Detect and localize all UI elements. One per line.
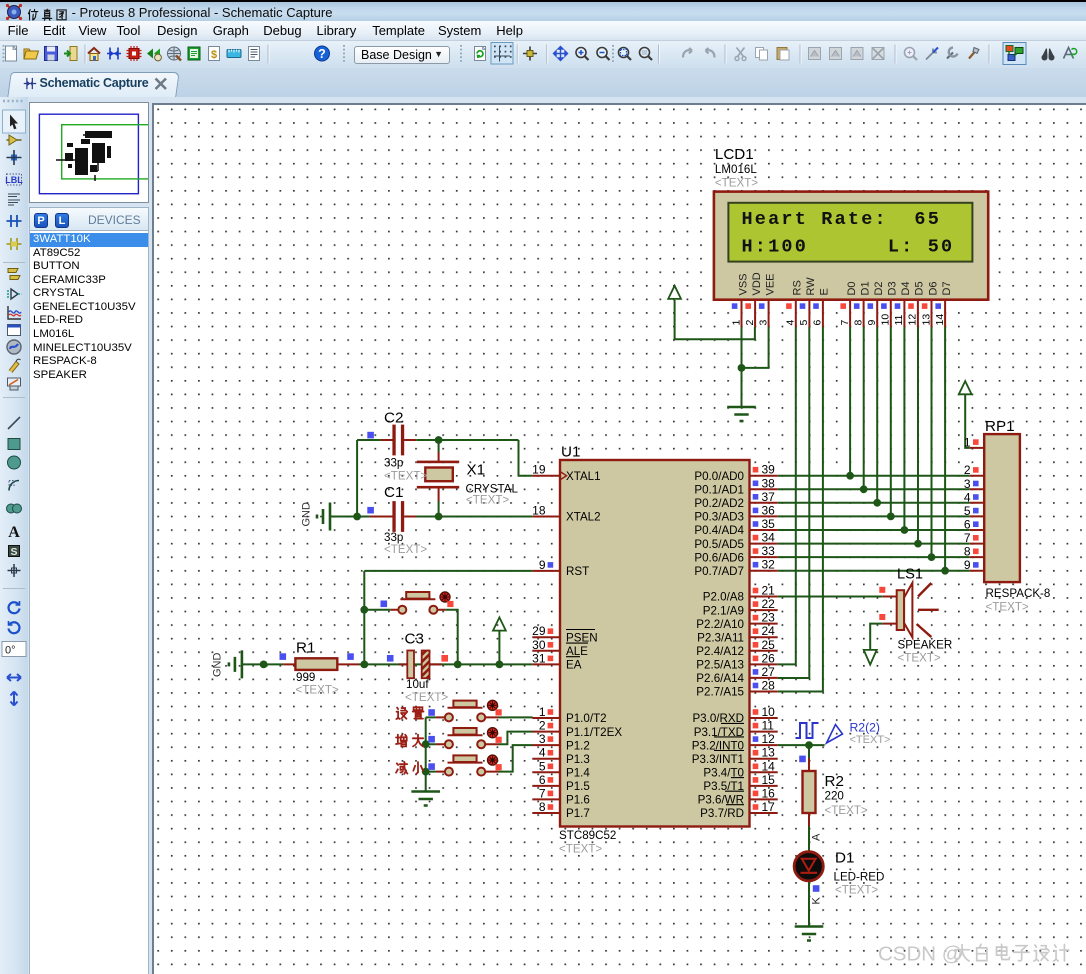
svg-text:33: 33 xyxy=(762,544,776,558)
svg-text:ALE: ALE xyxy=(566,645,588,658)
svg-text:P1.7: P1.7 xyxy=(566,807,590,820)
svg-text:?: ? xyxy=(318,47,326,61)
svg-text:22: 22 xyxy=(762,597,776,611)
svg-text:26: 26 xyxy=(762,651,776,665)
svg-text:R1: R1 xyxy=(296,640,315,657)
svg-text:P1.5: P1.5 xyxy=(566,780,590,793)
svg-text:P0.7/AD7: P0.7/AD7 xyxy=(694,565,744,578)
svg-text:P3.7/RD: P3.7/RD xyxy=(700,807,744,820)
svg-text:25: 25 xyxy=(762,638,776,652)
svg-text:D4: D4 xyxy=(900,281,912,295)
svg-text:RST: RST xyxy=(566,565,589,578)
svg-text:8: 8 xyxy=(539,800,546,814)
svg-text:6: 6 xyxy=(964,517,971,531)
svg-text:LBL: LBL xyxy=(5,175,23,185)
svg-text:C1: C1 xyxy=(384,484,403,501)
svg-text:32: 32 xyxy=(762,558,776,572)
svg-text:<TEXT>: <TEXT> xyxy=(405,691,448,704)
svg-text:5: 5 xyxy=(798,320,810,326)
svg-text:P1.1/T2EX: P1.1/T2EX xyxy=(566,726,622,739)
svg-text:999: 999 xyxy=(296,671,315,684)
svg-text:1: 1 xyxy=(964,435,971,449)
svg-text:P2.0/A8: P2.0/A8 xyxy=(703,591,744,604)
svg-text:8: 8 xyxy=(852,320,864,326)
svg-text:10: 10 xyxy=(880,314,892,326)
svg-text:19: 19 xyxy=(532,463,546,477)
svg-text:<TEXT>: <TEXT> xyxy=(850,734,891,746)
svg-text:10uf: 10uf xyxy=(406,678,429,691)
svg-text:H:100 L: 50: H:100 L: 50 xyxy=(742,237,955,258)
svg-text:C3: C3 xyxy=(405,631,424,648)
svg-text:$: $ xyxy=(211,49,217,61)
svg-text:P2.4/A12: P2.4/A12 xyxy=(696,645,744,658)
svg-text:6: 6 xyxy=(812,320,824,326)
svg-text:P2.5/A13: P2.5/A13 xyxy=(696,659,744,672)
svg-text:LM016L: LM016L xyxy=(715,163,757,176)
svg-text:14: 14 xyxy=(934,314,946,326)
svg-text:9: 9 xyxy=(866,320,878,326)
svg-text:RS: RS xyxy=(792,280,804,295)
svg-text:D3: D3 xyxy=(887,281,899,295)
svg-text:STC89C52: STC89C52 xyxy=(559,829,616,842)
svg-text:P0.2/AD2: P0.2/AD2 xyxy=(694,497,744,510)
svg-text:4: 4 xyxy=(964,490,971,504)
svg-text:RW: RW xyxy=(805,277,817,296)
svg-text:10: 10 xyxy=(762,705,776,719)
svg-text:P2.1/A9: P2.1/A9 xyxy=(703,604,744,617)
svg-text:2: 2 xyxy=(744,320,756,326)
svg-text:<TEXT>: <TEXT> xyxy=(384,470,427,483)
svg-text:D1: D1 xyxy=(835,850,854,867)
svg-text:U1: U1 xyxy=(561,444,580,461)
svg-text:LCD1: LCD1 xyxy=(715,146,754,163)
svg-text:P0.6/AD6: P0.6/AD6 xyxy=(694,551,744,564)
svg-text:5: 5 xyxy=(964,504,971,518)
svg-text:P2.3/A11: P2.3/A11 xyxy=(697,631,744,644)
svg-text:A: A xyxy=(8,524,20,541)
svg-text:<TEXT>: <TEXT> xyxy=(384,543,427,556)
svg-text:P0.5/AD5: P0.5/AD5 xyxy=(694,538,744,551)
svg-text:K: K xyxy=(811,897,823,905)
svg-text:P2.7/A15: P2.7/A15 xyxy=(696,686,744,699)
svg-text:GND: GND xyxy=(212,653,224,678)
svg-text:38: 38 xyxy=(762,476,776,490)
svg-text:Heart Rate: 65: Heart Rate: 65 xyxy=(742,209,942,230)
svg-text:D1: D1 xyxy=(859,281,871,295)
svg-text:P0.1/AD1: P0.1/AD1 xyxy=(694,483,744,496)
svg-text:R2: R2 xyxy=(825,773,844,790)
svg-text:5: 5 xyxy=(539,759,546,773)
svg-text:P0.3/AD3: P0.3/AD3 xyxy=(694,511,744,524)
svg-text:P0.0/AD0: P0.0/AD0 xyxy=(694,470,744,483)
svg-text:<TEXT>: <TEXT> xyxy=(559,843,602,856)
svg-text:11: 11 xyxy=(893,314,905,325)
svg-text:D6: D6 xyxy=(927,281,939,295)
svg-text:P2.2/A10: P2.2/A10 xyxy=(696,618,744,631)
svg-text:1: 1 xyxy=(539,705,546,719)
svg-text:7: 7 xyxy=(539,786,546,800)
svg-text:D7: D7 xyxy=(941,281,953,295)
svg-text:A: A xyxy=(811,833,823,841)
svg-text:P1.2: P1.2 xyxy=(566,739,590,752)
svg-text:17: 17 xyxy=(762,800,776,814)
svg-text:RESPACK-8: RESPACK-8 xyxy=(986,587,1051,600)
svg-text:P1.3: P1.3 xyxy=(566,753,590,766)
svg-text:23: 23 xyxy=(762,611,776,625)
svg-text:<TEXT>: <TEXT> xyxy=(835,884,878,897)
svg-text:12: 12 xyxy=(762,732,776,746)
svg-text:E: E xyxy=(819,288,831,295)
svg-text:34: 34 xyxy=(762,531,776,545)
svg-text:4: 4 xyxy=(785,320,797,326)
svg-text:7: 7 xyxy=(839,320,851,326)
svg-text:16: 16 xyxy=(762,786,776,800)
svg-text:C2: C2 xyxy=(384,410,403,427)
svg-text:XTAL2: XTAL2 xyxy=(566,511,601,524)
svg-text:LED-RED: LED-RED xyxy=(834,871,885,884)
svg-text:PSEN: PSEN xyxy=(566,631,598,644)
svg-text:GND: GND xyxy=(301,502,313,527)
svg-text:15: 15 xyxy=(762,773,776,787)
svg-text:2: 2 xyxy=(539,719,546,733)
svg-text:<TEXT>: <TEXT> xyxy=(825,804,868,817)
svg-text:D2: D2 xyxy=(873,281,885,295)
svg-text:31: 31 xyxy=(532,651,546,665)
svg-text:P3.3/INT1: P3.3/INT1 xyxy=(692,753,744,766)
svg-text:D5: D5 xyxy=(914,281,926,295)
svg-text:<TEXT>: <TEXT> xyxy=(715,177,758,190)
svg-text:D0: D0 xyxy=(846,281,858,295)
svg-text:1: 1 xyxy=(730,320,742,326)
svg-text:P0.4/AD4: P0.4/AD4 xyxy=(694,524,744,537)
svg-text:33p: 33p xyxy=(384,457,403,470)
svg-text:14: 14 xyxy=(762,759,776,773)
svg-text:28: 28 xyxy=(762,678,776,692)
svg-text:8: 8 xyxy=(964,545,971,559)
svg-text:<TEXT>: <TEXT> xyxy=(296,684,339,697)
svg-text:P1.4: P1.4 xyxy=(566,766,590,779)
svg-text:36: 36 xyxy=(762,503,776,517)
svg-text:VDD: VDD xyxy=(751,272,763,295)
svg-text:13: 13 xyxy=(762,746,776,760)
svg-text:3: 3 xyxy=(964,477,971,491)
svg-text:P1.6: P1.6 xyxy=(566,794,590,807)
svg-text:7: 7 xyxy=(964,531,971,545)
svg-text:EA: EA xyxy=(566,659,582,672)
svg-text:220: 220 xyxy=(825,790,844,803)
svg-text:21: 21 xyxy=(762,584,776,598)
svg-text:CSDN @: CSDN @ xyxy=(878,943,963,966)
svg-text:9: 9 xyxy=(964,558,971,572)
svg-text:9: 9 xyxy=(539,558,546,572)
svg-text:P1.0/T2: P1.0/T2 xyxy=(566,712,607,725)
svg-text:SPEAKER: SPEAKER xyxy=(898,639,953,652)
svg-text:12: 12 xyxy=(907,314,919,326)
svg-text:2: 2 xyxy=(964,463,971,477)
svg-text:13: 13 xyxy=(920,314,932,326)
svg-text:29: 29 xyxy=(532,624,546,638)
svg-text:<TEXT>: <TEXT> xyxy=(986,601,1029,614)
svg-text:<TEXT>: <TEXT> xyxy=(466,494,509,507)
svg-text:3: 3 xyxy=(757,320,769,326)
svg-text:35: 35 xyxy=(762,517,776,531)
svg-text:S: S xyxy=(10,546,17,558)
svg-text:RP1: RP1 xyxy=(985,418,1015,435)
svg-text:VSS: VSS xyxy=(737,273,749,295)
svg-text:4: 4 xyxy=(539,746,546,760)
svg-text:VEE: VEE xyxy=(764,273,776,295)
svg-text:39: 39 xyxy=(762,463,776,477)
svg-text:11: 11 xyxy=(762,719,775,733)
svg-text:30: 30 xyxy=(532,638,546,652)
svg-text:27: 27 xyxy=(762,665,776,679)
svg-text:R2(2): R2(2) xyxy=(850,721,880,735)
svg-text:LS1: LS1 xyxy=(897,567,923,583)
svg-text:P2.6/A14: P2.6/A14 xyxy=(696,672,744,685)
svg-text:<TEXT>: <TEXT> xyxy=(898,652,941,665)
svg-text:37: 37 xyxy=(762,490,776,504)
svg-text:0°: 0° xyxy=(5,645,16,657)
svg-text:X1: X1 xyxy=(467,462,486,479)
svg-text:18: 18 xyxy=(532,504,546,518)
svg-text:24: 24 xyxy=(762,624,776,638)
svg-text:6: 6 xyxy=(539,773,546,787)
svg-text:XTAL1: XTAL1 xyxy=(566,470,601,483)
svg-text:3: 3 xyxy=(539,732,546,746)
